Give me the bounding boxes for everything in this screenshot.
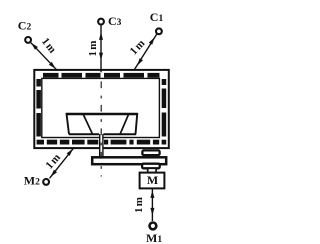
svg-text:1m: 1m (87, 39, 99, 56)
svg-text:M: M (147, 173, 158, 187)
svg-text:1m: 1m (133, 196, 145, 213)
